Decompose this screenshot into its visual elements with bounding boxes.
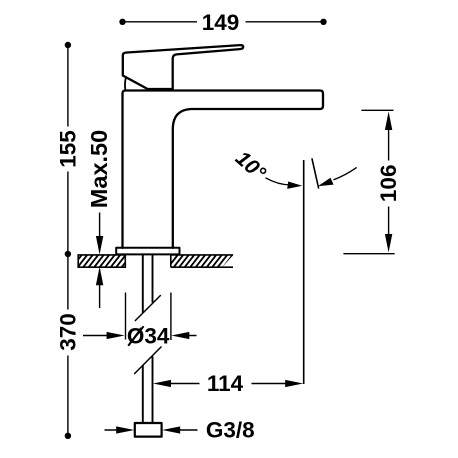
- svg-text:Max.50: Max.50: [86, 130, 112, 208]
- svg-text:155: 155: [56, 130, 81, 168]
- svg-text:370: 370: [56, 313, 81, 351]
- svg-text:Ø34: Ø34: [127, 324, 170, 349]
- svg-text:114: 114: [207, 371, 244, 396]
- svg-text:106: 106: [376, 165, 401, 203]
- svg-text:G3/8: G3/8: [206, 417, 255, 442]
- svg-text:149: 149: [202, 10, 240, 35]
